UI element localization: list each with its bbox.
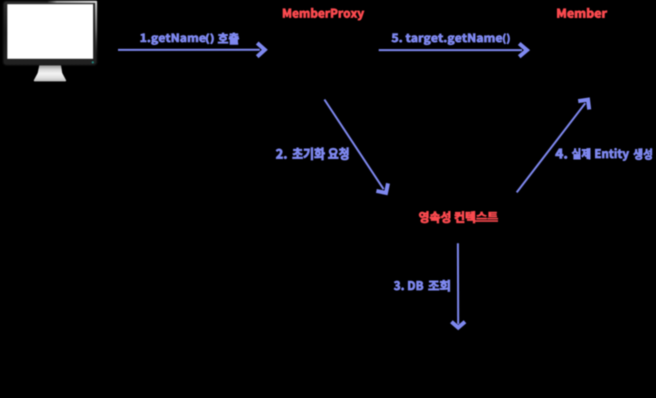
- label persistence context (part 1): [419, 211, 475, 223]
- label Member: [557, 8, 607, 18]
- label 3 hangul (query): [428, 280, 449, 292]
- underline under 스트: [475, 220, 498, 222]
- arrow 3 DB query (persistence context down): [451, 243, 465, 327]
- label 4. prefix: [556, 149, 567, 159]
- client computer icon: [3, 1, 97, 82]
- label 2. prefix: [276, 149, 287, 159]
- label 3. DB prefix: [394, 281, 423, 290]
- label 1.getName (latin part): [141, 34, 206, 45]
- label 5. target.getName (latin): [392, 34, 502, 45]
- arrow 4 create real entity (persistence context to Member): [517, 100, 590, 193]
- arrow 5 target.getName() (MemberProxy to Member): [379, 44, 527, 57]
- label 4 Entity: [595, 148, 629, 160]
- arrow 2 init request (MemberProxy to persistence context): [324, 100, 388, 193]
- label 5 parens: [503, 34, 510, 44]
- label persistence context (part 2, underlined): [477, 212, 498, 219]
- label MemberProxy: [283, 8, 364, 20]
- label 4 hangul (real): [572, 148, 590, 159]
- label 4 hangul (creation): [633, 149, 651, 160]
- arrow 1 MemberProxy call (client to MemberProxy): [118, 43, 265, 57]
- label 1 parens: [206, 34, 214, 44]
- label 1 hangul part (call): [218, 33, 239, 44]
- label 2 hangul (init request): [293, 148, 349, 160]
